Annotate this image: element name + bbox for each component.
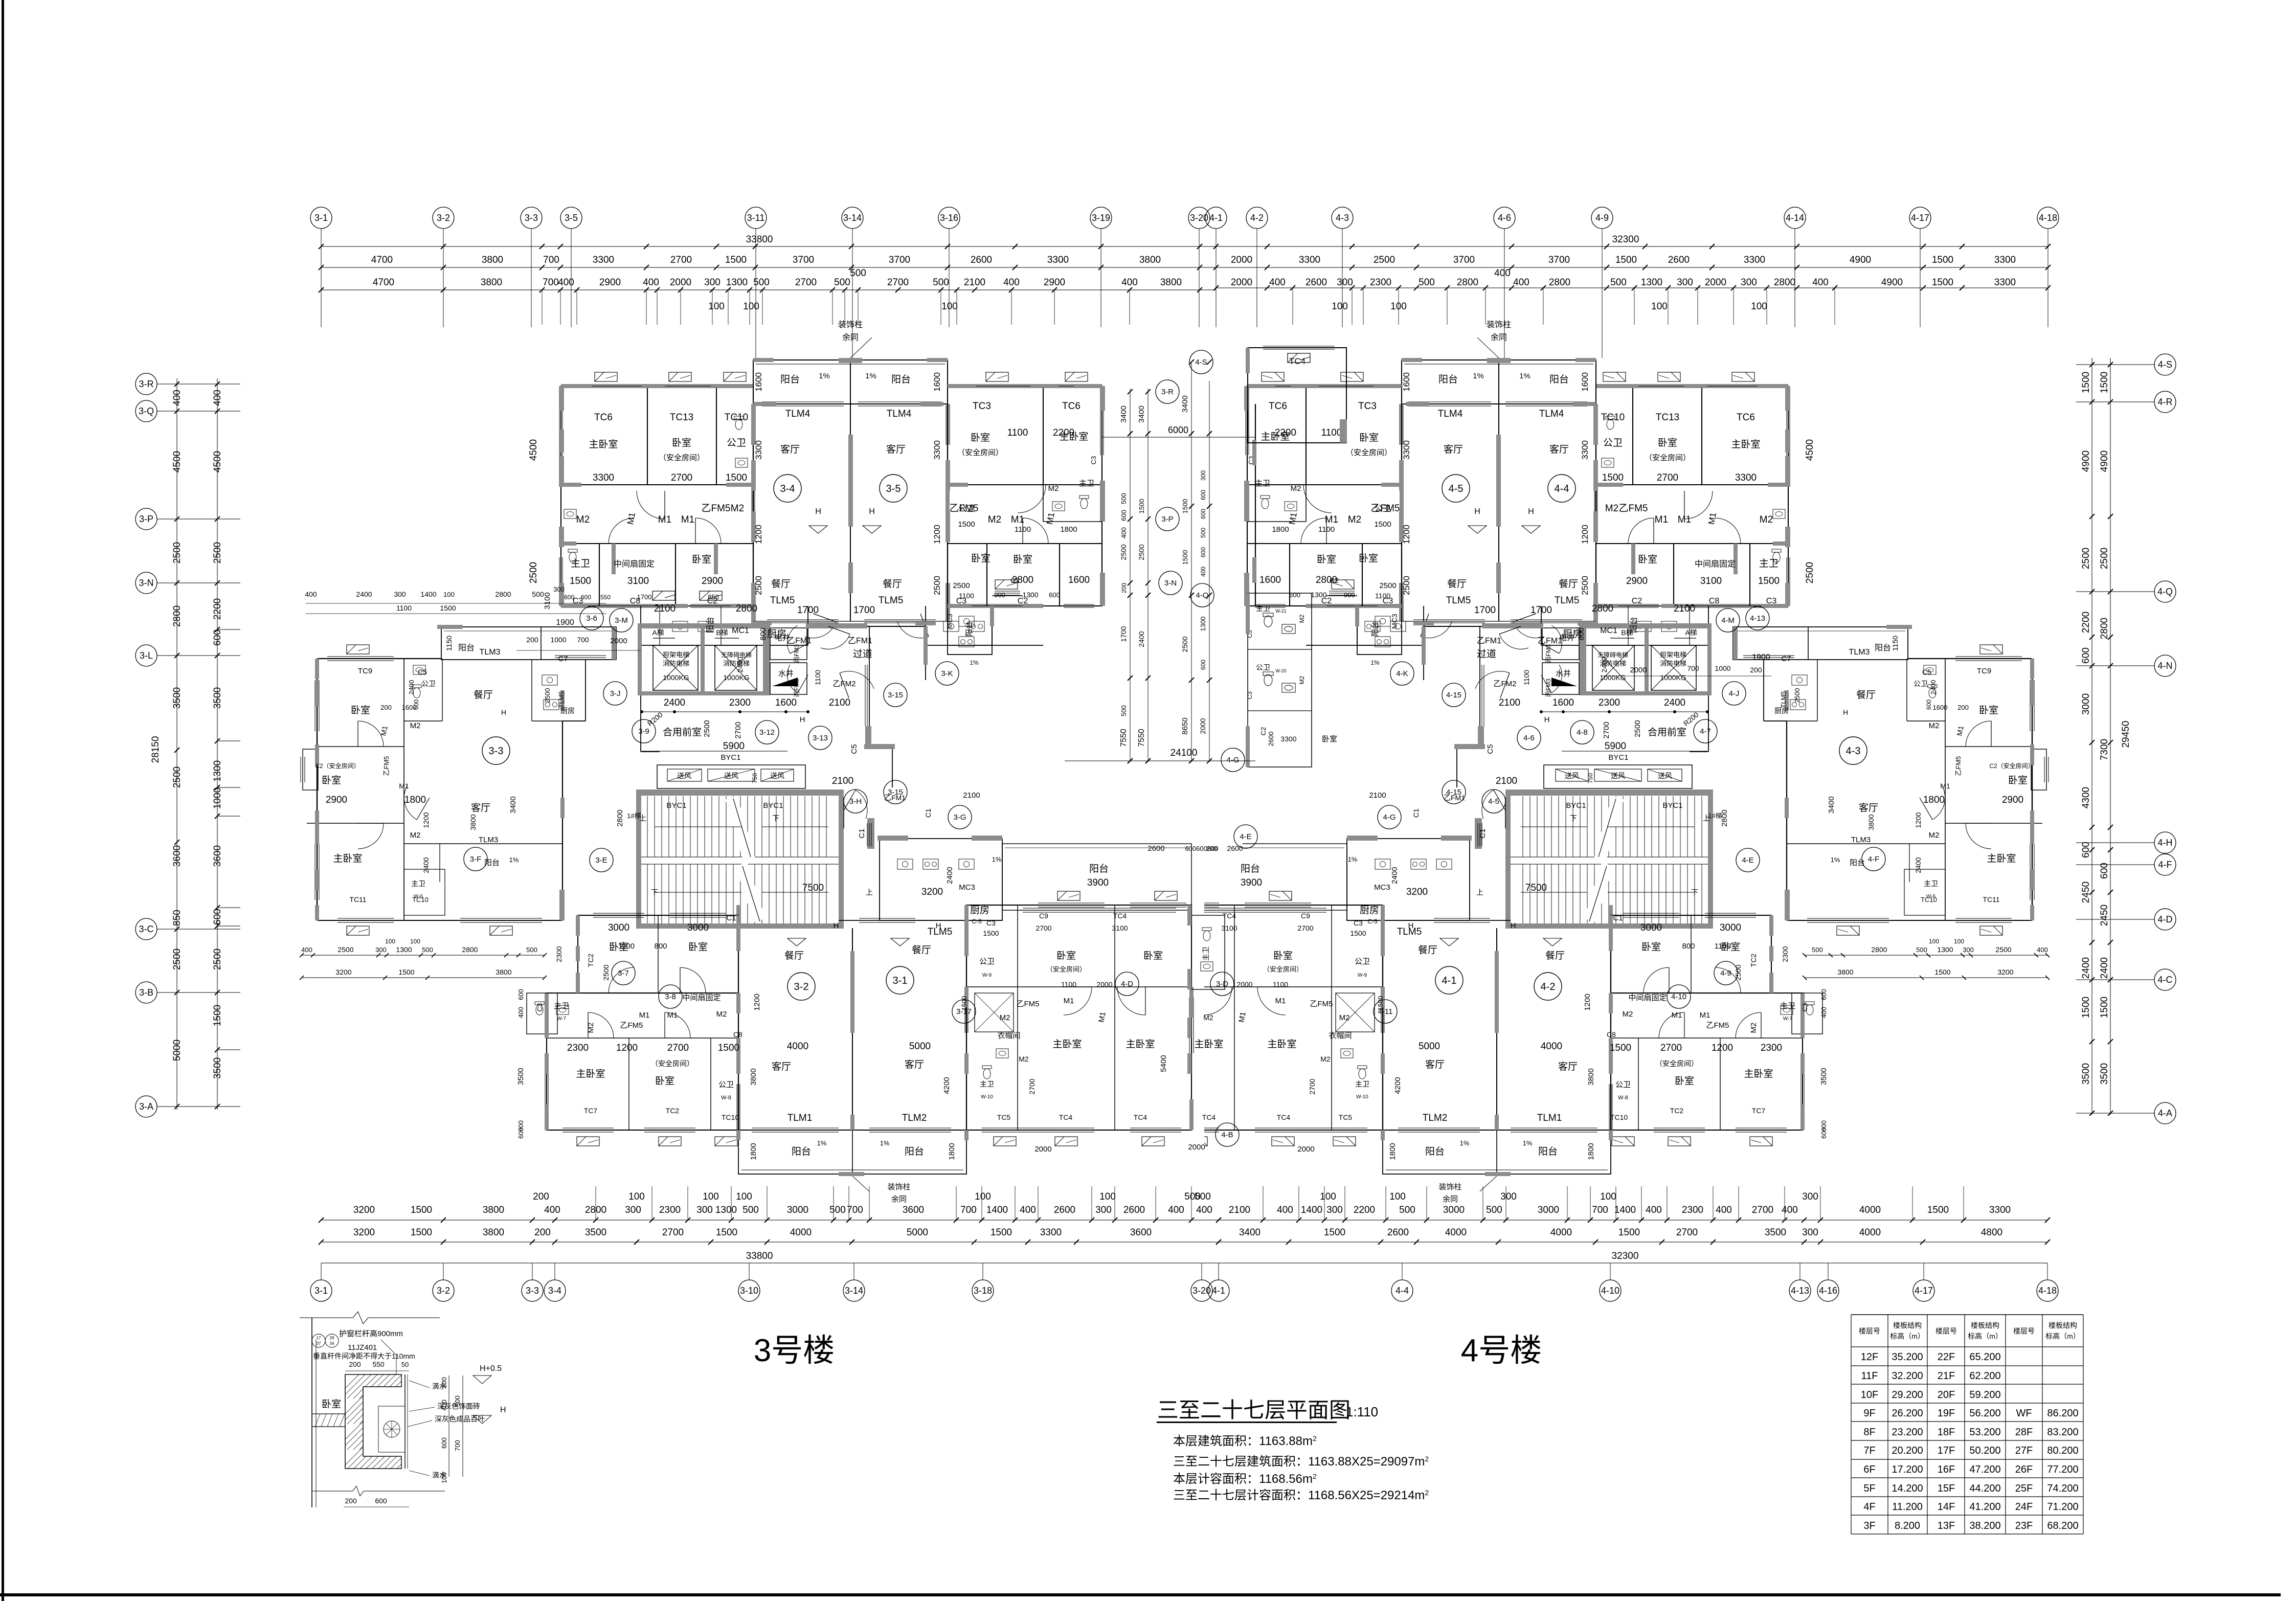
svg-text:1200: 1200 [1712,1043,1733,1053]
svg-text:1900: 1900 [556,618,574,627]
svg-text:11.200: 11.200 [1892,1501,1923,1513]
svg-text:客厅: 客厅 [1558,1061,1578,1072]
B3 bottom balcony strip [738,1130,966,1174]
svg-text:4-3: 4-3 [1336,213,1349,223]
svg-text:TC4: TC4 [1202,1113,1216,1121]
svg-text:TC2: TC2 [587,954,595,967]
svg-text:M2: M2 [576,514,590,525]
svg-text:600: 600 [564,594,574,601]
B3 shafts 电井/水井 [770,628,807,660]
svg-text:消防电梯: 消防电梯 [1660,660,1686,667]
svg-text:2600: 2600 [971,255,992,265]
svg-text:4-D: 4-D [1121,980,1133,988]
svg-text:500: 500 [1916,946,1927,954]
svg-text:3500: 3500 [2081,1063,2091,1085]
left axis column [176,378,177,1110]
svg-text:C3: C3 [1246,691,1253,700]
svg-text:4-B: 4-B [1221,1131,1233,1139]
svg-text:83.200: 83.200 [2047,1427,2078,1438]
svg-text:3-R: 3-R [1161,388,1174,396]
svg-text:1600: 1600 [932,372,942,392]
bottom axis band building 3 [321,1220,1219,1221]
svg-text:3-11: 3-11 [747,213,765,223]
svg-text:5900: 5900 [1605,741,1626,752]
svg-text:2500: 2500 [1995,945,2011,954]
svg-text:公卫: 公卫 [1914,680,1928,688]
svg-text:3-C: 3-C [139,924,153,934]
svg-text:3-10: 3-10 [740,1286,758,1296]
svg-text:装饰柱: 装饰柱 [887,1183,910,1191]
svg-text:4-6: 4-6 [1523,734,1535,742]
svg-text:1200: 1200 [422,812,430,828]
svg-text:1700: 1700 [1474,605,1496,616]
svg-text:M2: M2 [1605,503,1618,514]
svg-text:100: 100 [1332,301,1348,312]
svg-text:3-4: 3-4 [548,1286,561,1296]
svg-text:主卫: 主卫 [1355,1080,1369,1088]
svg-text:TC4: TC4 [1059,1113,1073,1121]
svg-text:卧室: 卧室 [1675,1075,1694,1087]
svg-text:1100: 1100 [1321,427,1342,438]
svg-text:卧室: 卧室 [1322,735,1337,743]
svg-text:1%: 1% [509,856,519,864]
svg-text:34: 34 [330,1341,334,1346]
svg-text:公卫: 公卫 [1615,1080,1631,1089]
svg-text:4-13: 4-13 [1750,614,1765,623]
svg-text:28: 28 [330,1336,334,1340]
svg-text:2400: 2400 [408,680,415,695]
svg-text:TC2: TC2 [666,1107,680,1115]
svg-text:2700: 2700 [1752,1205,1773,1215]
svg-text:TC4: TC4 [1113,912,1127,920]
svg-text:1%: 1% [1370,659,1380,666]
svg-text:TLM5: TLM5 [770,595,795,606]
svg-text:1%: 1% [819,372,830,380]
svg-text:H: H [800,715,805,724]
svg-text:24100: 24100 [1170,748,1198,758]
svg-text:3800: 3800 [483,1205,504,1215]
svg-text:3-5: 3-5 [565,213,578,223]
svg-text:2600: 2600 [1668,255,1690,265]
svg-text:MC3: MC3 [1374,883,1390,892]
svg-text:3300: 3300 [1744,255,1765,265]
svg-text:M1: M1 [1655,514,1668,525]
svg-text:100: 100 [743,301,759,312]
svg-text:2400: 2400 [356,590,372,598]
svg-text:2400: 2400 [2099,957,2110,979]
svg-text:1000: 1000 [550,636,566,644]
svg-text:担架电梯: 担架电梯 [1660,651,1686,659]
svg-text:TLM5: TLM5 [879,595,904,606]
svg-text:乙FM5: 乙FM5 [1954,756,1962,776]
svg-text:3-2: 3-2 [437,1286,450,1296]
svg-text:400: 400 [1494,268,1511,279]
svg-text:500: 500 [1399,1205,1415,1215]
svg-text:H: H [501,708,506,716]
svg-text:BYC1: BYC1 [763,801,783,810]
svg-text:1500: 1500 [725,255,747,265]
svg-text:100: 100 [1600,1191,1616,1202]
svg-text:M1: M1 [1287,512,1299,526]
svg-text:2450: 2450 [2081,882,2091,903]
svg-text:主卫: 主卫 [571,558,590,569]
svg-text:TC10: TC10 [1921,896,1937,904]
svg-text:2000: 2000 [1034,1145,1051,1154]
svg-text:1500: 1500 [1932,255,1953,265]
svg-text:楼板结构: 楼板结构 [1893,1321,1922,1329]
svg-text:（安全房间）: （安全房间） [1655,1059,1698,1068]
svg-text:3300: 3300 [593,255,614,265]
svg-text:300: 300 [704,277,721,288]
svg-text:2400: 2400 [664,697,685,708]
svg-text:2400: 2400 [1600,657,1608,672]
svg-text:1500: 1500 [1758,576,1780,587]
svg-text:3700: 3700 [889,255,910,265]
svg-text:4-8: 4-8 [1577,728,1588,737]
svg-text:C1: C1 [726,914,736,922]
svg-text:2800: 2800 [2099,618,2110,639]
svg-text:2600: 2600 [1054,1205,1075,1215]
svg-text:卧室: 卧室 [688,941,708,953]
svg-text:300: 300 [394,590,406,598]
svg-text:3200: 3200 [1406,887,1428,897]
svg-text:2500: 2500 [337,945,353,954]
svg-text:2000: 2000 [1630,666,1647,674]
svg-text:29450: 29450 [2121,721,2131,748]
svg-text:4-9: 4-9 [1595,213,1609,223]
B3 supply-air shaft strip [657,765,805,788]
svg-text:1500: 1500 [991,1227,1012,1238]
svg-text:M1: M1 [667,1011,678,1020]
svg-text:卧室: 卧室 [322,1399,341,1410]
svg-text:M2: M2 [1320,1055,1331,1063]
svg-text:TC9: TC9 [1977,667,1991,675]
svg-text:餐厅: 餐厅 [883,578,902,590]
svg-text:37: 37 [317,1341,321,1346]
svg-text:TC4: TC4 [1223,912,1236,920]
svg-text:3400: 3400 [1827,796,1836,813]
svg-text:2300: 2300 [1761,1043,1782,1053]
svg-text:800: 800 [1577,627,1586,640]
svg-text:BYC1: BYC1 [721,753,740,762]
svg-text:400: 400 [440,1400,448,1411]
svg-text:4900: 4900 [1850,255,1871,265]
svg-text:送风: 送风 [1565,772,1579,780]
svg-text:WF: WF [2016,1408,2032,1419]
svg-text:主卫: 主卫 [1256,604,1270,613]
svg-text:MC1: MC1 [1600,626,1617,635]
svg-text:1500: 1500 [398,968,414,976]
svg-text:H: H [1843,708,1848,716]
svg-text:M2: M2 [1298,675,1305,684]
svg-text:2100: 2100 [1369,791,1386,800]
svg-text:3-13: 3-13 [813,734,828,742]
svg-text:餐厅: 餐厅 [1545,950,1565,961]
svg-text:26.200: 26.200 [1892,1408,1923,1419]
svg-text:1300: 1300 [212,760,223,782]
svg-text:3-N: 3-N [1164,579,1177,588]
svg-text:500: 500 [1486,1205,1502,1215]
svg-text:2700: 2700 [734,721,742,738]
svg-text:上: 上 [866,888,873,896]
svg-text:4200: 4200 [1393,1077,1402,1094]
svg-text:主卫: 主卫 [1759,558,1779,569]
svg-text:4-9: 4-9 [1720,969,1731,978]
svg-text:M2: M2 [716,1010,727,1019]
svg-text:2000: 2000 [670,277,691,288]
svg-text:3-15: 3-15 [888,788,903,797]
svg-text:TLM2: TLM2 [902,1113,927,1123]
svg-text:客厅: 客厅 [772,1061,791,1072]
svg-text:1100: 1100 [1273,980,1288,988]
svg-text:600: 600 [581,594,591,601]
svg-text:500: 500 [1419,277,1435,288]
svg-text:主卫: 主卫 [554,1002,569,1010]
svg-text:主卧室: 主卧室 [333,853,362,864]
svg-text:TLM3: TLM3 [479,836,498,844]
svg-text:2200: 2200 [2081,612,2091,633]
svg-text:300: 300 [1802,1191,1818,1202]
svg-text:100: 100 [1929,938,1939,945]
svg-text:4000: 4000 [1541,1041,1562,1052]
svg-text:700: 700 [454,1440,461,1451]
svg-text:公卫: 公卫 [727,438,746,448]
svg-text:送风: 送风 [1611,772,1625,780]
svg-text:400: 400 [1269,277,1286,288]
svg-text:1800: 1800 [1587,1143,1595,1160]
svg-text:主卧室: 主卧室 [1059,431,1088,442]
top band secondary stems [542,290,543,325]
svg-text:W-8: W-8 [1618,1095,1628,1101]
svg-text:TC4: TC4 [1277,1113,1291,1121]
svg-text:200: 200 [533,1191,549,1202]
svg-text:2300: 2300 [1370,277,1391,288]
svg-text:2700: 2700 [1657,472,1678,483]
svg-text:下: 下 [1570,814,1577,822]
svg-text:4-D: 4-D [2157,914,2172,924]
svg-text:主卧室: 主卧室 [1126,1039,1155,1050]
svg-text:卧室: 卧室 [971,432,990,443]
svg-text:3400: 3400 [509,796,517,813]
svg-text:700: 700 [577,636,589,644]
svg-text:2300: 2300 [1682,1205,1703,1215]
svg-text:三至二十七层建筑面积：1163.88X25=29097m2: 三至二十七层建筑面积：1163.88X25=29097m2 [1173,1455,1429,1469]
svg-text:3300: 3300 [1735,472,1757,483]
svg-text:客厅: 客厅 [1425,1059,1445,1070]
svg-text:3800: 3800 [483,1227,504,1238]
svg-text:2400: 2400 [1664,697,1685,708]
svg-text:200: 200 [1750,666,1762,674]
svg-text:44.200: 44.200 [1969,1483,2000,1494]
svg-text:25F: 25F [2015,1483,2033,1494]
svg-text:2700: 2700 [795,277,817,288]
svg-text:C8: C8 [1709,597,1720,605]
svg-text:23F: 23F [2015,1520,2033,1531]
svg-text:500: 500 [742,1205,759,1215]
svg-text:3-M: 3-M [615,616,628,625]
svg-text:1%: 1% [970,659,979,666]
svg-text:M1: M1 [1275,997,1286,1005]
svg-text:500: 500 [829,1205,846,1215]
svg-text:H: H [834,921,839,930]
svg-text:1700: 1700 [637,593,652,601]
svg-text:20.200: 20.200 [1892,1445,1923,1456]
svg-text:400: 400 [1812,277,1829,288]
B3 top-right unit walls [948,386,1102,606]
svg-text:500: 500 [753,277,770,288]
svg-text:乙FM2: 乙FM2 [1493,680,1516,688]
svg-text:300: 300 [625,1205,641,1215]
svg-text:1000KG: 1000KG [723,673,749,682]
svg-text:38.200: 38.200 [1969,1520,2000,1531]
svg-text:5000: 5000 [1419,1041,1440,1052]
svg-text:4700: 4700 [373,277,394,288]
svg-text:2400: 2400 [1914,857,1922,873]
B3 east balcony (3900) [1002,844,1191,910]
svg-text:3800: 3800 [1587,1068,1595,1085]
svg-text:1700: 1700 [797,605,819,616]
svg-text:M1: M1 [1097,1011,1107,1023]
svg-text:4-R: 4-R [2157,397,2172,407]
svg-text:TLM2: TLM2 [1423,1113,1448,1123]
svg-text:200: 200 [349,1360,361,1368]
svg-text:阳台: 阳台 [905,1146,924,1157]
svg-text:100: 100 [1389,1191,1406,1202]
svg-text:乙FM5: 乙FM5 [701,503,730,514]
svg-text:C1: C1 [1478,828,1487,838]
svg-text:3500: 3500 [585,1227,606,1238]
svg-text:1000: 1000 [1715,664,1730,672]
B3 central tower balcony [753,360,948,404]
svg-text:2100: 2100 [963,791,980,800]
svg-text:750: 750 [751,773,758,783]
svg-text:10F: 10F [1861,1389,1878,1401]
svg-text:楼板结构: 楼板结构 [2049,1321,2077,1329]
svg-text:过道: 过道 [853,648,872,660]
svg-text:21F: 21F [1938,1370,1955,1382]
svg-text:1600: 1600 [1259,575,1281,585]
svg-text:2600: 2600 [1227,844,1243,852]
svg-text:750: 750 [1587,773,1594,783]
svg-text:1400: 1400 [1301,1205,1322,1215]
svg-text:H: H [1408,921,1414,930]
svg-text:3200: 3200 [335,968,351,976]
svg-text:M2: M2 [1348,514,1361,525]
svg-text:1%: 1% [1523,1139,1533,1147]
svg-text:5F: 5F [1863,1483,1875,1494]
svg-text:65.200: 65.200 [1969,1351,2000,1363]
svg-text:7500: 7500 [1525,883,1547,893]
svg-text:3600: 3600 [172,845,183,867]
svg-text:1500: 1500 [411,1205,432,1215]
svg-text:50: 50 [401,1361,409,1368]
svg-text:主卧室: 主卧室 [1731,439,1760,450]
svg-text:2300: 2300 [1599,697,1620,708]
svg-text:公卫: 公卫 [1256,663,1270,671]
svg-text:C3: C3 [1766,597,1777,605]
svg-text:100: 100 [736,1191,752,1202]
svg-text:2800: 2800 [1871,945,1887,954]
svg-text:衣帽间: 衣帽间 [1329,1031,1352,1040]
svg-text:13F: 13F [1938,1520,1955,1531]
svg-text:M2: M2 [1760,514,1773,525]
svg-text:400: 400 [1196,1205,1212,1215]
svg-text:5000: 5000 [172,1040,183,1061]
svg-text:1%: 1% [865,372,876,380]
svg-text:装饰柱: 装饰柱 [1487,320,1511,329]
svg-text:1500: 1500 [1618,1227,1640,1238]
svg-text:100: 100 [703,1191,719,1202]
svg-text:3100: 3100 [1700,576,1722,587]
svg-text:3-2: 3-2 [437,213,450,223]
svg-text:3000: 3000 [2081,693,2091,715]
svg-text:1700: 1700 [1530,605,1552,616]
B3 central tower body [753,404,754,621]
svg-text:1500: 1500 [2099,997,2110,1018]
svg-text:600: 600 [1925,700,1932,710]
svg-text:餐厅: 餐厅 [784,950,804,961]
svg-text:4-4: 4-4 [1395,1286,1409,1296]
svg-text:100: 100 [708,301,725,312]
svg-text:100: 100 [440,1472,448,1483]
svg-text:主卧室: 主卧室 [1260,431,1290,442]
svg-text:丙FM3: 丙FM3 [1545,679,1552,697]
svg-text:客厅: 客厅 [1444,444,1463,455]
svg-text:100: 100 [1954,938,1964,945]
svg-text:300: 300 [1095,1205,1112,1215]
svg-text:600: 600 [212,629,223,646]
svg-text:28F: 28F [2015,1427,2033,1438]
svg-text:M1: M1 [1064,997,1074,1005]
svg-text:1800: 1800 [749,1143,758,1160]
svg-text:2400: 2400 [422,857,430,873]
svg-text:3-D: 3-D [1216,980,1228,988]
svg-text:4-F: 4-F [1868,855,1880,864]
svg-text:TLM1: TLM1 [787,1113,813,1123]
svg-text:C1: C1 [1613,914,1623,922]
svg-text:1000: 1000 [212,787,223,809]
svg-text:2500: 2500 [953,581,970,590]
svg-text:客厅: 客厅 [780,444,800,455]
svg-text:3400: 3400 [1181,395,1189,412]
svg-text:2100: 2100 [1229,1205,1250,1215]
svg-text:TC11: TC11 [349,895,366,904]
svg-text:200: 200 [534,1227,551,1238]
svg-text:2300: 2300 [555,946,563,962]
svg-text:卧室: 卧室 [1979,705,1998,716]
svg-text:C2（安全房间）: C2（安全房间） [1989,762,2034,770]
svg-text:厨房: 厨房 [1774,707,1789,715]
B3 left wing walls [317,658,441,659]
svg-text:3300: 3300 [1280,735,1296,743]
svg-text:H: H [500,1406,506,1414]
svg-text:M2: M2 [1749,1023,1758,1033]
svg-text:中间扇固定: 中间扇固定 [1695,559,1736,569]
svg-text:100: 100 [941,301,958,312]
svg-text:550: 550 [372,1360,385,1368]
svg-text:62.200: 62.200 [1969,1370,2000,1382]
svg-text:3300: 3300 [1402,440,1411,460]
svg-text:7F: 7F [1863,1445,1875,1456]
svg-text:600: 600 [1200,490,1207,500]
svg-text:18F: 18F [1938,1427,1955,1438]
svg-text:M1: M1 [1678,514,1691,525]
svg-text:4500: 4500 [528,439,539,461]
svg-text:乙FM5: 乙FM5 [1618,503,1648,514]
svg-text:M2: M2 [1339,1013,1350,1022]
svg-text:400: 400 [1277,1205,1293,1215]
svg-text:4800: 4800 [1981,1227,2002,1238]
